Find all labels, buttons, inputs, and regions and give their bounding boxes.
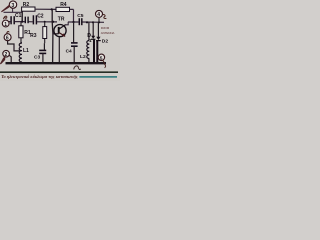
resistor R3: [30, 22, 47, 43]
svg-text:3: 3: [11, 3, 14, 9]
svg-text:FROM: FROM: [101, 26, 110, 30]
wire: D2 to ground (thick bar): [96, 41, 98, 62]
terminal 1: [2, 20, 9, 28]
wire: terminal3 stub: [12, 8, 14, 12]
wire: terminal 1 to C1: [9, 21, 11, 23]
node junctions on y22 wire right: [86, 21, 88, 23]
wire: top rail between R2 and R4: [35, 8, 56, 10]
svg-text:C4: C4: [66, 49, 72, 55]
wire: emitter drop to ground: [58, 37, 60, 63]
svg-text:ANTENNA: ANTENNA: [101, 31, 115, 35]
capacitor (middle pair): [25, 17, 28, 24]
pointer squiggle below terminal 5: [102, 60, 106, 68]
node junction on mid wire at x22: [21, 21, 23, 23]
svg-text:R3: R3: [30, 33, 37, 39]
capacitor C5: [77, 13, 84, 25]
wire: R4 right end to drop: [70, 9, 74, 22]
svg-text:TR: TR: [58, 16, 65, 22]
diode D1: [87, 22, 95, 43]
inductor L1: [19, 42, 29, 63]
resistor R4: [56, 2, 70, 12]
wire: output horizontal y22: [68, 21, 104, 23]
svg-text:4: 4: [97, 12, 100, 18]
capacitor C2: [33, 14, 43, 25]
terminal 3: [9, 1, 16, 9]
terminal 6: [4, 34, 11, 42]
svg-text:6: 6: [6, 36, 9, 42]
wire: collector riser to y22: [65, 22, 68, 25]
svg-text:C3: C3: [34, 54, 40, 60]
wire: terminal3 horizontal wire y12: [4, 11, 23, 13]
capacitor C4: [66, 22, 78, 63]
capacitor C3: [34, 43, 46, 62]
frame rule line: [0, 71, 118, 73]
ground rail: [6, 62, 107, 64]
resistor R1: [19, 22, 31, 43]
terminal 2: [3, 50, 10, 58]
svg-text:1: 1: [4, 22, 7, 28]
svg-text:C2: C2: [37, 14, 44, 20]
terminal 5: [98, 54, 104, 61]
wire: long vertical x52.5 from top rail to ground: [51, 9, 54, 62]
svg-text:D2: D2: [102, 38, 109, 44]
pointer squiggle right of terminal 4: [103, 15, 107, 19]
resistor R2: [22, 2, 35, 11]
svg-text:L1: L1: [23, 48, 29, 54]
capacitor C1: [11, 13, 22, 24]
svg-text:Το ηλεκτρονικό κύκλωμα της κατ: Το ηλεκτρονικό κύκλωμα της κατασκευής: [1, 74, 78, 79]
background: [0, 0, 120, 81]
pointer squiggle above terminal 6: [7, 31, 9, 33]
node junction at x73.5: [72, 21, 74, 23]
wire: base feed y34: [53, 33, 59, 35]
svg-text:L2: L2: [80, 54, 86, 60]
pen arrow to terminal 3: [1, 5, 9, 12]
node junction on mid wire at x53: [52, 21, 54, 23]
wire: riser x22 from R2 down to mid wire: [21, 11, 23, 22]
svg-text:R2: R2: [23, 2, 30, 8]
pen arrow to terminal 2: [0, 57, 4, 64]
terminal 4: [96, 10, 103, 22]
svg-text:R4: R4: [60, 2, 67, 8]
wire: terminal 2 to ground: [9, 55, 12, 63]
wire: D1 to ground (thick bar): [93, 40, 95, 63]
node junction on mid wire at x44.7: [44, 21, 46, 23]
teal underline: [79, 76, 117, 78]
pointer squiggle above terminal 1: [3, 16, 6, 19]
svg-text:C5: C5: [77, 13, 84, 19]
FROM ANTENNA note: [101, 26, 115, 35]
inductor L2: [80, 22, 89, 62]
wire: tap from terminal 6 to L1: [8, 41, 20, 51]
transistor TR: [54, 16, 66, 37]
diode D2: [96, 22, 108, 44]
svg-text:C1: C1: [15, 13, 22, 19]
flourish squiggle on ground under C4: [74, 66, 81, 70]
wire: mid horizontal wire y21.5 with gaps for capacitors: [9, 21, 57, 23]
node junction top rail x51.5: [51, 8, 53, 10]
svg-text:1: 1: [89, 38, 92, 43]
